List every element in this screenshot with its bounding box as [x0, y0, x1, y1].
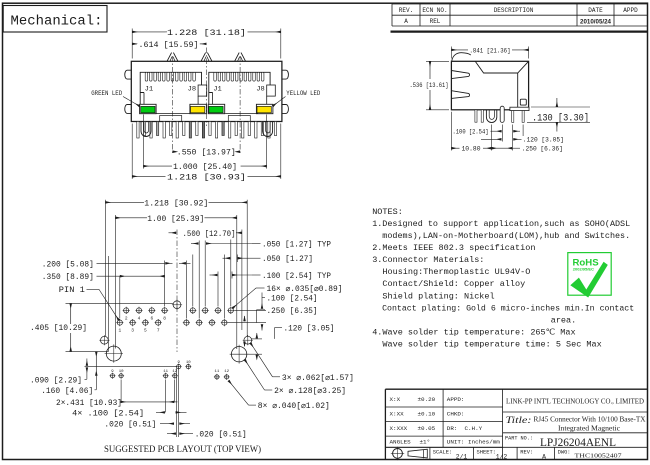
svg-text:UNIT: Inches/mm: UNIT: Inches/mm: [447, 439, 500, 446]
yellow LED port2: [256, 104, 273, 113]
RoHS logo checkmark: [570, 262, 608, 298]
svg-text:J8: J8: [256, 86, 265, 93]
svg-text:.020 [0.51]: .020 [0.51]: [195, 430, 247, 439]
svg-text:DATE: DATE: [588, 7, 603, 14]
svg-text:10.80: 10.80: [462, 146, 481, 153]
revision table: [391, 4, 393, 26]
svg-text:1.00 [25.39]: 1.00 [25.39]: [147, 215, 204, 224]
svg-text:LPJ26204AENL: LPJ26204AENL: [540, 435, 616, 449]
svg-text:REV:: REV:: [520, 450, 533, 456]
svg-text:.841 [21.36]: .841 [21.36]: [470, 48, 511, 55]
pcb dim .050 [1.27]: [223, 257, 231, 259]
svg-text:.130 [3.30]: .130 [3.30]: [532, 113, 589, 125]
svg-text:APPD: APPD: [623, 7, 638, 14]
svg-text:SUGGESTED PCB LAYOUT (TOP VIEW: SUGGESTED PCB LAYOUT (TOP VIEW): [104, 444, 261, 455]
svg-text:REL: REL: [430, 18, 441, 25]
svg-text:SHEET:: SHEET:: [477, 450, 496, 456]
pcb centerline: [176, 230, 178, 353]
svg-text:Housing:Thermoplastic UL94V-O: Housing:Thermoplastic UL94V-O: [372, 267, 530, 277]
svg-text:8× ⌀.040[⌀1.02]: 8× ⌀.040[⌀1.02]: [258, 403, 330, 411]
svg-text:.200 [5.08]: .200 [5.08]: [42, 260, 94, 269]
front view side mounting tabs: [125, 70, 132, 79]
svg-text:.100 [2.54]: .100 [2.54]: [267, 295, 318, 303]
yellow LED port1: [190, 104, 207, 113]
title block grid: [385, 388, 647, 390]
svg-text:NOTES:: NOTES:: [372, 207, 403, 217]
svg-text:2010/05/24: 2010/05/24: [580, 18, 612, 25]
svg-text:.090 [2.29]: .090 [2.29]: [30, 376, 82, 385]
side view post square: [520, 99, 526, 105]
svg-text:8: 8: [163, 315, 166, 321]
svg-text:7: 7: [157, 328, 160, 334]
pcb dim .050 [1.27] TYP: [191, 243, 199, 245]
svg-text:X:X: X:X: [390, 396, 401, 403]
pcb center extension pair: [176, 366, 178, 437]
svg-text:PART NO.:: PART NO.:: [505, 435, 533, 442]
front view: RJ45 2-port connector body: [131, 61, 282, 121]
svg-text:Contact/Shield: Copper alloy: Contact/Shield: Copper alloy: [372, 279, 525, 289]
led extension lines: [120, 380, 122, 403]
svg-text:.160 [4.06]: .160 [4.06]: [41, 387, 93, 396]
svg-text:.536 [13.61]: .536 [13.61]: [410, 82, 449, 89]
svg-text:2: 2: [125, 315, 128, 321]
svg-text:Wave solder tip temperature ti: Wave solder tip temperature time: 5 Sec …: [372, 340, 602, 350]
svg-text:X:XX: X:XX: [390, 411, 405, 418]
svg-text:4.Wave solder tip temperature:: 4.Wave solder tip temperature: 265℃ Max: [372, 328, 575, 338]
svg-text:.120 [3.05]: .120 [3.05]: [523, 137, 564, 144]
pcb layout contact holes row A (even pins): [124, 308, 129, 313]
shield hole left: [101, 336, 109, 344]
front view hook legs: [141, 122, 151, 137]
side dim .130 [3.30]: [531, 106, 590, 108]
svg-text:11: 11: [214, 370, 219, 374]
front dim 1.000 [25.40]: [142, 115, 144, 169]
svg-text:.050 [1.27] TYP: .050 [1.27] TYP: [262, 242, 331, 250]
port 1 contact comb: [145, 72, 148, 81]
svg-text:1.218 [30.92]: 1.218 [30.92]: [144, 199, 208, 208]
svg-text:Mechanical:: Mechanical:: [11, 15, 103, 30]
svg-text:±0.05: ±0.05: [418, 425, 436, 432]
front view legs: [137, 122, 139, 139]
svg-text:.405 [10.29]: .405 [10.29]: [30, 324, 87, 333]
svg-text:.020 [0.51]: .020 [0.51]: [104, 421, 156, 430]
front dim 1.228 [31.18]: [131, 29, 133, 59]
svg-text:1.Designed to support applicat: 1.Designed to support application,such a…: [372, 219, 630, 229]
svg-text:LINK-PP INT'L TECHNOLOGY CO.,: LINK-PP INT'L TECHNOLOGY CO., LIMITED: [506, 397, 644, 406]
green LED port2: [208, 104, 225, 113]
port 2 bottom step: [225, 112, 258, 114]
svg-text:1/2: 1/2: [496, 454, 508, 461]
side view bottom flange: [510, 107, 529, 110]
svg-text:1: 1: [118, 328, 121, 334]
svg-text:3× ⌀.062[⌀1.57]: 3× ⌀.062[⌀1.57]: [282, 375, 354, 383]
svg-text:REV.: REV.: [399, 7, 413, 14]
side dim .250 [6.36]: [492, 147, 513, 149]
svg-text:2/1: 2/1: [456, 454, 468, 461]
svg-text:DWG:: DWG:: [558, 450, 571, 456]
svg-text:.100 [2.54]: .100 [2.54]: [453, 129, 489, 136]
side view legs: [475, 110, 477, 122]
front dim .550 [13.97]: [173, 151, 177, 153]
svg-text:J1: J1: [145, 86, 154, 93]
mounting hole left: [106, 346, 121, 361]
svg-text:10: 10: [186, 361, 191, 365]
svg-text:2× ⌀.128[⌀3.25]: 2× ⌀.128[⌀3.25]: [274, 388, 346, 396]
svg-text:2×.431 [10.93]: 2×.431 [10.93]: [56, 399, 122, 408]
port 2 opening: [209, 72, 270, 104]
front view centerlines: [172, 56, 174, 155]
side view leg extension lines: [491, 125, 493, 151]
pcb dim .500 [12.70]: [169, 232, 177, 234]
port 1 bottom step: [157, 112, 190, 114]
svg-text:A: A: [404, 18, 408, 25]
pcb layout contact holes row B (odd pins): [117, 320, 122, 325]
svg-text:±0.20: ±0.20: [418, 396, 436, 403]
revision table thick base line: [391, 31, 648, 33]
svg-text:11: 11: [163, 370, 168, 374]
svg-text:3: 3: [131, 328, 134, 334]
RoHS logo box: [568, 253, 611, 296]
svg-text:Integrated Magnetic: Integrated Magnetic: [558, 423, 621, 432]
svg-text:2.Meets IEEE 802.3 specificati: 2.Meets IEEE 802.3 specification: [372, 243, 535, 253]
svg-text:4× .100 [2.54]: 4× .100 [2.54]: [72, 409, 144, 418]
front view top ground fingers: [167, 53, 178, 62]
svg-text:±0.10: ±0.10: [418, 411, 436, 418]
svg-text:ECN NO.: ECN NO.: [422, 7, 447, 14]
pcb dim 1.00 [25.39]: [115, 217, 147, 219]
pcb dim 1.218 [30.92]: [105, 201, 144, 203]
front dim .614 [15.59]: [132, 43, 137, 45]
svg-text:Shield plating: Nickel: Shield plating: Nickel: [372, 291, 494, 301]
svg-text:.550 [13.97]: .550 [13.97]: [177, 149, 236, 158]
svg-text:.250 [6.35]: .250 [6.35]: [267, 308, 318, 316]
LED holes pair A (9,10): [110, 374, 114, 378]
side dim .120 [3.05]: [481, 138, 502, 140]
LED holes pair B (11,12): [164, 374, 168, 378]
svg-text:10: 10: [119, 370, 124, 374]
svg-text:5: 5: [144, 328, 147, 334]
port 1 opening: [140, 72, 201, 104]
svg-text:DESCRIPTION: DESCRIPTION: [494, 7, 534, 14]
svg-text:area.: area.: [372, 315, 576, 325]
svg-text:PIN 1: PIN 1: [59, 286, 85, 295]
svg-text:Title:: Title:: [506, 415, 532, 425]
svg-text:6: 6: [150, 315, 153, 321]
pcb extension lines: [104, 200, 106, 336]
side dim .841 [21.36]: [450, 47, 452, 59]
svg-text:J1: J1: [213, 86, 222, 93]
mounting hole right: [231, 347, 246, 362]
svg-text:.614 [15.59]: .614 [15.59]: [139, 41, 199, 50]
projection symbol: [393, 449, 403, 459]
green LED port1: [140, 104, 157, 113]
svg-text:.250 [6.36]: .250 [6.36]: [522, 146, 563, 153]
side view top wire arc: [452, 53, 471, 61]
svg-text:A: A: [542, 453, 546, 460]
svg-text:modems),LAN-on-Motherboard(LOM: modems),LAN-on-Motherboard(LOM),hub and …: [372, 231, 630, 241]
svg-text:4: 4: [138, 315, 141, 321]
side view top chamfer: [475, 61, 528, 73]
svg-text:.350 [8.89]: .350 [8.89]: [42, 273, 94, 282]
svg-text:.120 [3.05]: .120 [3.05]: [284, 326, 335, 334]
pcb dim .100 [2.54] TYP: [210, 274, 218, 276]
side dim .536 [13.61]: [426, 60, 449, 62]
svg-text:APPD:: APPD:: [447, 396, 465, 403]
side view body: [451, 61, 528, 110]
port 2 contact comb: [214, 72, 217, 81]
svg-text:16× ⌀.035[⌀0.89]: 16× ⌀.035[⌀0.89]: [267, 286, 343, 294]
svg-text:Contact plating: Gold 6 micro-: Contact plating: Gold 6 micro-inches min…: [372, 303, 634, 313]
svg-text:YELLOW LED: YELLOW LED: [286, 90, 320, 97]
svg-text:3.Connector Materials:: 3.Connector Materials:: [372, 255, 484, 265]
svg-text:1.218 [30.93]: 1.218 [30.93]: [167, 173, 246, 182]
svg-text:1.228 [31.18]: 1.228 [31.18]: [167, 29, 246, 38]
svg-text:SCALE:: SCALE:: [433, 450, 452, 456]
svg-text:CHKD:: CHKD:: [447, 411, 465, 418]
svg-text:ANGLES: ANGLES: [390, 439, 412, 446]
LED holes pair C (9,10): [177, 365, 181, 369]
shield hole right: [244, 336, 252, 344]
svg-text:X:XXX: X:XXX: [390, 425, 408, 432]
svg-text:RJ45 Connector With 10/100 Bas: RJ45 Connector With 10/100 Base-TX: [534, 415, 647, 424]
svg-text:1.000 [25.40]: 1.000 [25.40]: [173, 163, 237, 172]
side dim 10.80: [450, 112, 452, 151]
shield hole top center: [173, 301, 181, 309]
side view LED pin: [500, 106, 504, 122]
svg-text:GREEN LED: GREEN LED: [91, 90, 122, 97]
svg-text:THC10052407: THC10052407: [575, 453, 623, 460]
LED holes pair D (11,12): [215, 375, 219, 379]
svg-text:12: 12: [224, 370, 229, 374]
svg-text:2002/95/EC: 2002/95/EC: [573, 267, 594, 272]
svg-text:.100 [2.54] TYP: .100 [2.54] TYP: [262, 273, 331, 281]
front dim 1.218 [30.93]: [131, 124, 133, 179]
Mechanical title box: [3, 6, 107, 33]
svg-text:DR: C.H.Y: DR: C.H.Y: [447, 425, 483, 432]
svg-text:.500 [12.70]: .500 [12.70]: [183, 230, 236, 239]
svg-text:±1°: ±1°: [420, 439, 431, 446]
side view latch wedges: [451, 71, 469, 79]
svg-text:.050 [1.27]: .050 [1.27]: [262, 256, 313, 264]
pcb horizontal extension lines: [66, 302, 174, 304]
svg-text:J8: J8: [188, 86, 197, 93]
